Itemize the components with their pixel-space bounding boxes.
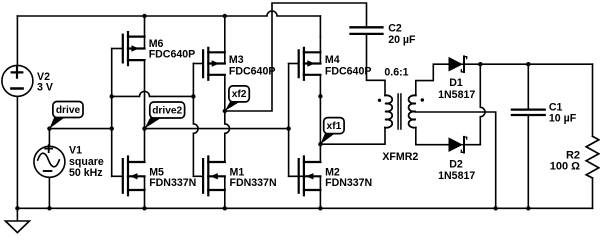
svg-text:D1: D1 <box>449 77 463 89</box>
diode D1 1N5817 schottky <box>449 56 481 72</box>
label M4 <box>325 54 372 77</box>
svg-text:10 µF: 10 µF <box>549 112 577 124</box>
wire secondary top to D1 <box>416 64 449 95</box>
label C1 <box>549 102 577 125</box>
node drive2 at M6/M5 drains <box>142 126 146 130</box>
label XFMR2 <box>382 151 418 163</box>
svg-text:FDN337N: FDN337N <box>230 177 277 189</box>
svg-text:FDN337N: FDN337N <box>325 177 372 189</box>
svg-text:M4: M4 <box>325 54 340 66</box>
resistor R2 <box>586 64 599 208</box>
label V1 value <box>69 144 104 179</box>
svg-text:3 V: 3 V <box>37 82 53 94</box>
wire xf1 to transformer primary bottom <box>320 128 385 145</box>
label M1 <box>230 167 277 190</box>
node ground rail junctions <box>15 206 19 210</box>
node top rail junction at M6 <box>142 14 146 18</box>
node top rail junction at M3 <box>223 14 227 18</box>
label M5 <box>149 167 196 190</box>
wire top rail corner down to M4 source <box>319 16 321 37</box>
node junction drive at M3/M1 gate <box>191 94 195 98</box>
transformer core <box>398 94 401 129</box>
label C2 <box>388 23 416 46</box>
label V2 value <box>37 71 53 94</box>
label ratio 0.6:1 <box>384 66 408 78</box>
svg-text:1N5817: 1N5817 <box>438 89 475 101</box>
label R2 <box>550 150 580 173</box>
node drive connection at gate vertical <box>110 126 114 130</box>
ground <box>5 208 29 232</box>
transistor M3 PMOS <box>193 16 224 111</box>
wire secondary center tap with hop then down to ground rail <box>416 112 496 208</box>
node drive anchor <box>47 126 51 130</box>
svg-text:1N5817: 1N5817 <box>438 170 475 182</box>
transistor M4 PMOS <box>289 37 321 144</box>
callout drive <box>49 102 83 129</box>
svg-text:FDC640P: FDC640P <box>149 49 196 61</box>
label M3 <box>229 54 276 77</box>
node drive2 end at M4/M2 gate vertical <box>286 126 290 130</box>
svg-text:FDC640P: FDC640P <box>325 65 372 77</box>
voltage source V2 <box>2 16 33 208</box>
wire bottom ground rail <box>17 207 592 209</box>
node phase dot primary <box>378 99 381 102</box>
transistor M1 NMOS <box>193 157 224 209</box>
svg-text:20 µF: 20 µF <box>388 34 416 46</box>
label D2 <box>438 158 475 182</box>
svg-text:0.6:1: 0.6:1 <box>384 66 408 78</box>
svg-text:M3: M3 <box>229 54 244 66</box>
wire drive to M3/M1 gates with hop over M6 drain <box>112 91 194 96</box>
transistor M5 NMOS <box>112 129 145 209</box>
label M6 <box>149 38 196 61</box>
node mystery junction on M4 drain <box>318 94 322 98</box>
svg-text:drive2: drive2 <box>152 105 182 116</box>
transformer XFMR2 secondary winding <box>409 95 416 127</box>
wire M1 drain vertical with hop over drive2 wire <box>225 111 230 162</box>
transistor M2 NMOS <box>289 144 321 208</box>
svg-text:XFMR2: XFMR2 <box>382 151 418 163</box>
wire xf2 to C2 riser <box>225 3 367 111</box>
wire D1/D2 cathode vertical with hop over center tap <box>480 64 485 145</box>
svg-text:square: square <box>69 156 104 168</box>
svg-text:50 kHz: 50 kHz <box>69 167 103 179</box>
label M2 <box>325 167 372 190</box>
label D1 <box>438 77 475 101</box>
node junction drive at M6/M5 gate <box>110 94 114 98</box>
node output junction C1 <box>526 62 530 66</box>
svg-text:100 Ω: 100 Ω <box>550 161 580 173</box>
diode D2 1N5817 schottky <box>449 137 481 153</box>
svg-text:FDC640P: FDC640P <box>229 65 276 77</box>
wire drive net from V1 to M6/M5 gates <box>49 128 111 130</box>
wire top rail with hop over xf2 riser <box>17 11 320 16</box>
node xf2 at M3/M1 drains <box>223 109 227 113</box>
voltage source V1 square 50kHz <box>34 129 65 209</box>
svg-text:C2: C2 <box>388 23 402 35</box>
svg-text:V1: V1 <box>69 144 82 156</box>
node output junction D1 <box>478 62 482 66</box>
node phase dot secondary <box>421 98 424 101</box>
wire M4/M2 gate vertical <box>288 64 290 177</box>
wire output rail to R2 <box>480 63 592 65</box>
callout drive2 <box>145 102 185 129</box>
capacitor C2 <box>351 27 386 95</box>
transistor M6 PMOS <box>112 16 145 129</box>
svg-text:FDN337N: FDN337N <box>149 177 196 189</box>
callout xf2 <box>225 86 249 111</box>
svg-text:drive: drive <box>56 105 81 116</box>
capacitor C1 <box>512 64 545 208</box>
wire secondary bottom to D2 <box>416 128 449 145</box>
transformer XFMR2 primary winding <box>385 95 392 127</box>
svg-text:xf1: xf1 <box>327 121 342 132</box>
wire M6/M5 gate vertical <box>111 49 113 177</box>
node xf1 at M4/M2 drains <box>318 142 322 146</box>
callout xf1 <box>320 118 344 145</box>
wire drive2 to M4/M2 gates <box>145 128 289 130</box>
wire M3/M1 gate vertical with hop over drive2 wire <box>193 64 198 177</box>
svg-text:xf2: xf2 <box>232 89 247 100</box>
svg-text:D2: D2 <box>449 158 463 170</box>
